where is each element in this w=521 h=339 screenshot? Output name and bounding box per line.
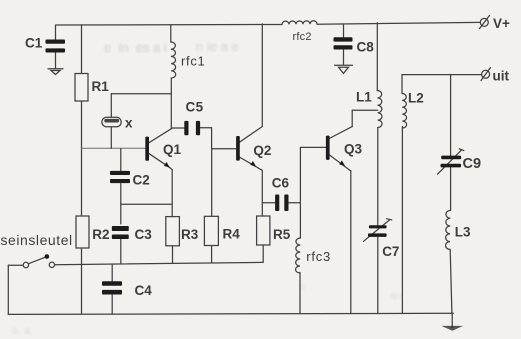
svg-text:L1: L1 — [356, 90, 372, 105]
svg-text:R1: R1 — [92, 79, 110, 94]
svg-text:rfc1: rfc1 — [181, 53, 205, 68]
svg-text:seinsleutel: seinsleutel — [1, 232, 73, 248]
svg-text:C6: C6 — [272, 176, 290, 191]
svg-text:an: an — [390, 291, 401, 302]
svg-text:R3: R3 — [181, 227, 199, 242]
svg-text:C4: C4 — [135, 283, 153, 298]
svg-text:Q3: Q3 — [344, 142, 363, 157]
svg-text:C5: C5 — [186, 99, 204, 114]
svg-text:C2: C2 — [133, 173, 150, 188]
svg-text:L2: L2 — [408, 91, 424, 106]
svg-text:C8: C8 — [357, 40, 375, 55]
svg-text:R5: R5 — [273, 227, 291, 242]
svg-text:ri: ri — [300, 282, 306, 293]
svg-text:rfc3: rfc3 — [306, 249, 331, 264]
svg-text:V+: V+ — [493, 16, 510, 31]
svg-text:Q2: Q2 — [253, 143, 271, 158]
svg-text:C7: C7 — [382, 244, 399, 259]
svg-text:rfc2: rfc2 — [293, 31, 312, 43]
svg-text:C9: C9 — [463, 156, 482, 172]
svg-text:C3: C3 — [135, 227, 153, 242]
svg-text:R4: R4 — [223, 227, 241, 242]
svg-text:e in es a i: e in es a i — [104, 40, 167, 55]
svg-text:Q1: Q1 — [163, 142, 182, 157]
svg-text:C1: C1 — [25, 36, 43, 51]
svg-text:uit: uit — [493, 68, 510, 83]
svg-text:R2: R2 — [92, 227, 109, 242]
svg-text:o. a: o. a — [12, 325, 31, 337]
svg-text:n ie a e: n ie a e — [196, 39, 239, 54]
svg-text:L3: L3 — [455, 225, 471, 240]
svg-text:x: x — [125, 116, 133, 131]
